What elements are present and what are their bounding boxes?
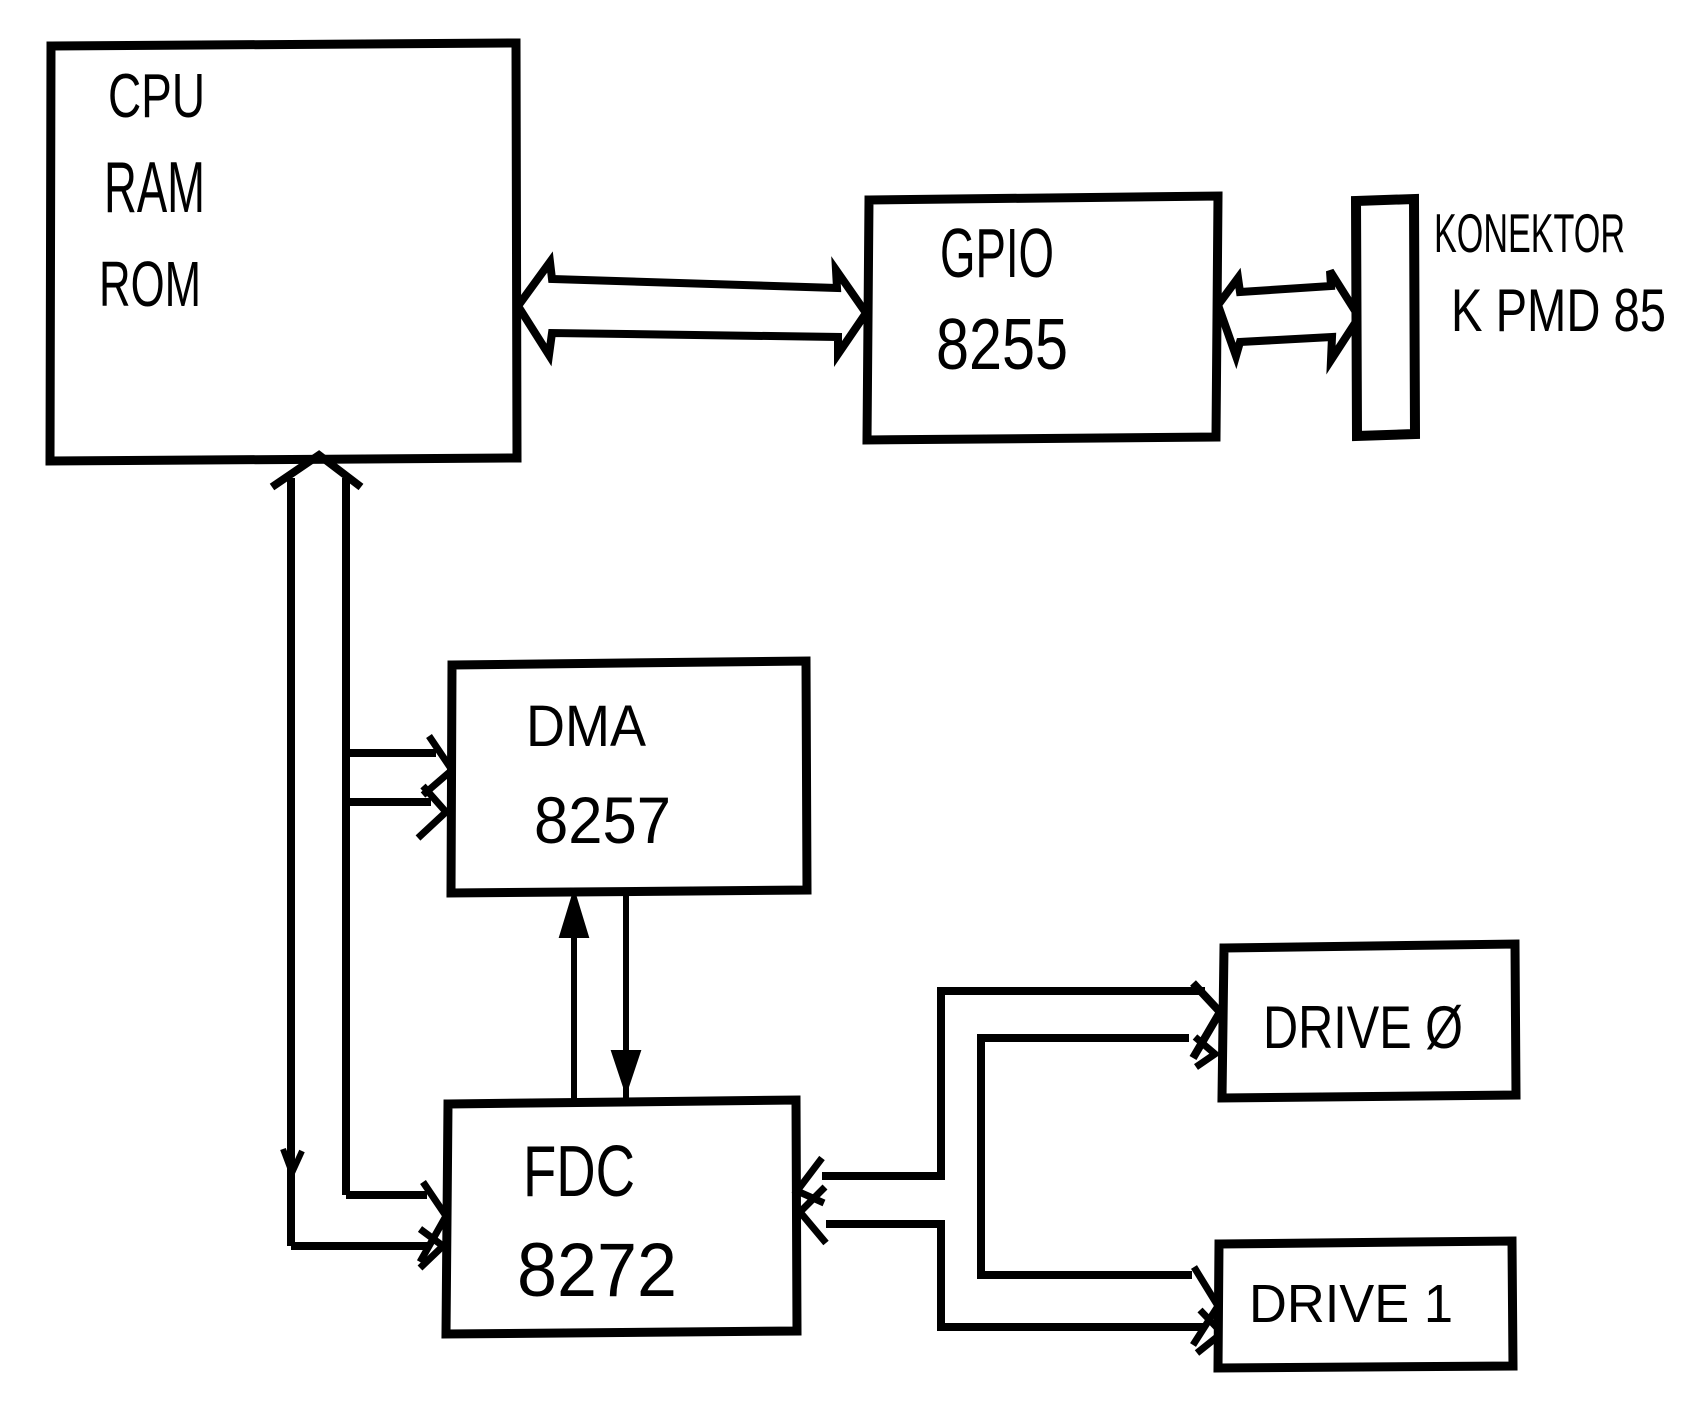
wire bus right shaft CPU to DMA/FDC <box>342 478 350 1195</box>
svg-text:CPU: CPU <box>108 62 205 131</box>
svg-text:8272: 8272 <box>517 1228 677 1313</box>
block DRIVE 1 <box>1218 1241 1513 1368</box>
svg-text:DRIVE Ø: DRIVE Ø <box>1263 994 1463 1061</box>
wire into FDC from left shaft <box>291 1229 443 1268</box>
arrowhead into DRIVE 1 upper <box>1193 1267 1218 1345</box>
svg-text:KONEKTOR: KONEKTOR <box>1434 202 1625 264</box>
wire FDC right lower to DRIVE 1 <box>826 1224 1203 1327</box>
svg-text:DMA: DMA <box>526 694 646 759</box>
svg-text:K PMD 85: K PMD 85 <box>1451 277 1666 344</box>
block GPIO 8255 <box>867 196 1218 440</box>
arrowhead into FDC upper right <box>797 1158 824 1203</box>
svg-text:GPIO: GPIO <box>940 214 1054 292</box>
arrowhead into CPU bottom <box>272 455 361 487</box>
block DMA 8257 <box>451 661 807 893</box>
arrow FDC to DMA (up) <box>560 891 588 1103</box>
wire into DMA upper <box>346 736 452 795</box>
wire daisy chain DRIVE 0 to DRIVE 1 (inner bracket) <box>981 1038 1192 1275</box>
block FDC 8272 <box>446 1100 797 1334</box>
svg-text:8255: 8255 <box>936 305 1068 385</box>
wire bus left shaft CPU to FDC <box>287 478 295 1246</box>
block DRIVE 0 <box>1222 944 1516 1098</box>
connector KONEKTOR K PMD 85 <box>1356 199 1666 436</box>
arrow DMA to FDC (down) <box>612 890 640 1098</box>
bus arrow GPIO-KONEKTOR (double headed) <box>1218 271 1359 360</box>
svg-text:FDC: FDC <box>523 1132 635 1212</box>
bus arrow CPU-GPIO (double headed) <box>518 262 866 355</box>
svg-text:8257: 8257 <box>534 783 671 857</box>
arrowhead into FDC lower right <box>800 1187 826 1243</box>
wire into FDC from right shaft <box>346 1182 446 1262</box>
svg-text:DRIVE 1: DRIVE 1 <box>1249 1274 1453 1334</box>
small arrowhead down on left shaft <box>283 1149 302 1173</box>
arrowhead into DRIVE 0 lower <box>1195 1037 1215 1067</box>
svg-text:RAM: RAM <box>104 148 205 228</box>
svg-text:ROM: ROM <box>99 248 201 320</box>
wire FDC right upper to DRIVE 0 <box>822 991 1205 1176</box>
arrowhead into DRIVE 0 upper <box>1193 983 1220 1058</box>
arrowhead into DRIVE 1 lower <box>1197 1310 1222 1353</box>
wire into DMA lower <box>344 786 446 838</box>
block CPU/RAM/ROM <box>50 43 517 461</box>
